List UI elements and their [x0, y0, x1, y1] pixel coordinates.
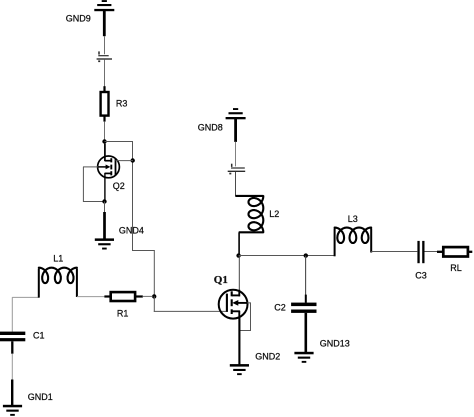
svg-text:Q1: Q1: [214, 274, 228, 286]
svg-text:GND1: GND1: [28, 392, 53, 402]
svg-text:GND2: GND2: [255, 352, 280, 362]
svg-text:GND4: GND4: [119, 226, 144, 236]
svg-text:C1: C1: [33, 331, 45, 341]
svg-text:GND13: GND13: [320, 339, 350, 349]
svg-text:R1: R1: [117, 308, 129, 318]
svg-text:GND9: GND9: [66, 13, 91, 23]
svg-text:RL: RL: [450, 263, 462, 273]
svg-text:GND8: GND8: [198, 123, 223, 133]
svg-text:L2: L2: [269, 209, 279, 219]
svg-text:C2: C2: [274, 302, 286, 312]
svg-text:Q2: Q2: [113, 181, 125, 191]
svg-text:L1: L1: [53, 254, 63, 264]
svg-text:C3: C3: [415, 271, 427, 281]
svg-text:L3: L3: [348, 214, 358, 224]
svg-text:R3: R3: [116, 98, 128, 108]
